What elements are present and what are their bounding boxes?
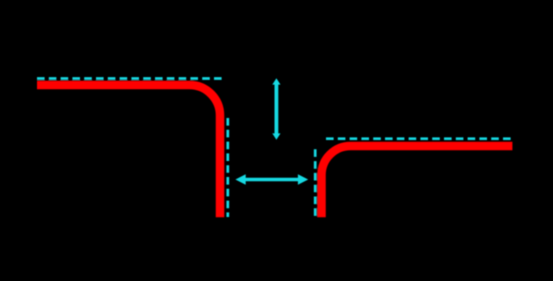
vertical double-headed arrow (level offset) — [272, 78, 280, 140]
right barrier edge dashed vertical — [314, 149, 317, 217]
left level dashed line — [37, 77, 222, 80]
horizontal double-headed arrow (gap width) — [235, 174, 308, 185]
right band edge (red curve, rising from vertical to horizontal) — [322, 146, 513, 217]
left barrier edge dashed vertical — [226, 118, 229, 217]
right level dashed line — [326, 137, 512, 140]
left band edge (red curve, horizontal then bending down) — [37, 85, 220, 217]
